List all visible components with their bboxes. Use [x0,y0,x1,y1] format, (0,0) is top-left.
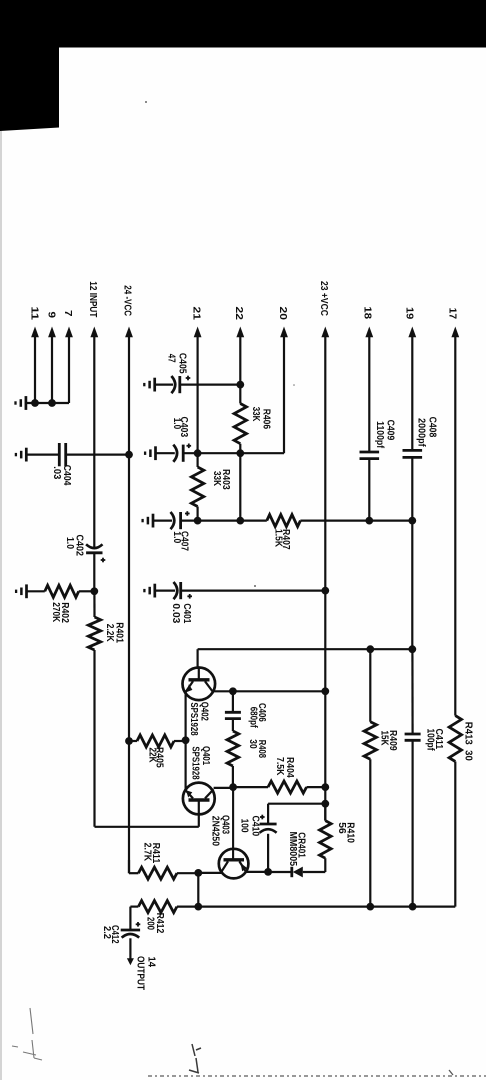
pin 7 terminal (arrow + lead) [62,310,74,403]
svg-text:7.5K: 7.5K [274,757,285,776]
junction C410/+VCC [321,800,329,808]
pin 11 terminal (arrow + lead) [28,307,40,404]
svg-text:15K: 15K [379,731,390,747]
junction R405/-VCC [125,737,133,745]
resistor R412 200 [130,901,198,934]
pin 22 terminal (arrow + lead) [233,307,245,385]
svg-text:11: 11 [28,307,40,321]
wire R407 to line19 [300,519,412,521]
transistor Q401 SPS1928 [183,746,215,827]
svg-text:33K: 33K [211,471,222,487]
svg-text:OUTPUT: OUTPUT [135,956,147,990]
wire line19 lower [411,457,413,521]
svg-text:Q402: Q402 [199,702,210,721]
junction R406/row [236,449,244,457]
diode CR401 MM8005 [268,832,325,878]
svg-text:1.0: 1.0 [171,418,182,430]
wire R413 to output bus [454,762,456,907]
junction output/Q403c [194,903,202,911]
wire Q401 base to R401 [95,650,199,827]
wire R409 to output bus [369,759,371,906]
wire output bus [198,905,455,907]
junction output/C411 [409,903,417,911]
scan page edge line [0,131,2,1080]
transistor Q403 2N4250 [210,787,249,878]
junction R403/C407 [194,517,202,525]
svg-text:2.7K: 2.7K [142,843,153,862]
svg-text:21: 21 [190,307,202,321]
resistor R407 1.5K [267,515,301,550]
resistor R404 7.5K [233,757,325,793]
junction C405/line22 [236,381,244,389]
junction R404/+VCC [321,783,329,791]
junction C410/Q403 emitter [264,868,272,876]
pin 20 terminal (arrow + lead) [277,307,289,454]
ground (C407) [143,514,172,528]
junction output/R409 [366,903,374,911]
svg-text:MM8005: MM8005 [287,832,298,867]
wire Q402 base feedback [198,649,413,668]
svg-text:47: 47 [166,354,177,363]
junction R407/line19 [408,517,416,525]
svg-text:2000pf: 2000pf [415,418,426,447]
resistor R409 15K [364,722,398,760]
resistor R405 22K [129,735,186,768]
svg-text:9: 9 [45,312,57,319]
capacitor C411 100pf [405,729,444,752]
resistor R413 30 [449,716,473,762]
wire Q402 collector [213,690,326,692]
svg-text:56: 56 [336,822,347,834]
junction line22/C407 [236,517,244,525]
capacitor C405 47 [166,353,191,393]
wire line18 lower [368,459,370,521]
svg-text:18: 18 [362,306,374,319]
wire Q402 emitter [185,692,187,791]
junction pin11/gnd [31,399,39,407]
resistor R402 270K [45,585,79,623]
capacitor C404 .03 [51,443,72,486]
svg-text:1.0: 1.0 [64,537,75,549]
pin 17 terminal (arrow + lead) [447,308,460,716]
svg-text:200: 200 [144,917,155,930]
svg-text:100: 100 [239,819,250,833]
capacitor C408 2000pf [403,417,438,458]
junction basewire/line18b [366,645,374,653]
svg-text:0.03: 0.03 [170,603,181,623]
svg-text:C409: C409 [385,420,396,441]
svg-text:24 -VCC: 24 -VCC [121,285,133,316]
junction basewire/line19 [408,645,416,653]
svg-text:23 +VCC: 23 +VCC [318,281,330,316]
svg-text:17: 17 [447,308,459,320]
ground (pins 11,9,7) [16,396,70,410]
junction Q401c/R408 [229,783,237,791]
junction C401/+VCC [321,587,329,595]
junction Q402c/C406 [229,687,237,695]
svg-text:2.2K: 2.2K [104,624,115,643]
svg-text:C410: C410 [250,816,261,837]
svg-text:SPS1928: SPS1928 [189,746,200,780]
capacitor C403 1.0 [171,417,191,462]
capacitor C406 680pf [225,691,267,728]
pin 23 +VCC terminal (arrow + lead) [318,281,330,821]
svg-text:22K: 22K [146,748,157,764]
svg-text:12 INPUT: 12 INPUT [87,281,99,318]
ground (R402) [16,584,45,598]
capacitor C409 1100pf [360,420,396,459]
wire C403 row to pin20 riser [183,452,284,454]
pin 9 terminal (arrow + lead) [45,312,57,404]
svg-text:R413 30: R413 30 [463,722,474,761]
wire C405 to line22 [180,384,241,386]
junction Q403c/R411 [194,869,202,877]
wire C410 top [268,804,325,824]
svg-text:C401: C401 [181,603,192,623]
wire Q403 emitter [246,871,268,873]
svg-text:.03: .03 [51,466,62,479]
svg-text:30: 30 [247,739,258,749]
junction Q402c/+VCC [321,687,329,695]
junction R407/line18 [365,517,373,525]
pin 24 -VCC terminal (arrow + lead) [121,285,133,873]
junction input node [90,587,98,595]
svg-text:20: 20 [277,307,289,321]
ground (C403) [145,446,175,460]
junction line21/C403/R403 [194,449,202,457]
resistor R406 33K [234,385,271,444]
ground (C404) [16,448,59,462]
wire C407 row [181,519,267,521]
wire Q401 collector [214,786,234,789]
resistor R411 2.7K [129,843,198,880]
black scan corner block [0,48,59,132]
svg-text:270K: 270K [50,602,61,623]
capacitor C402 1.0 [64,535,106,563]
junction pin9/gnd [48,399,56,407]
junction R405/emitters [182,736,190,744]
svg-text:100pf: 100pf [424,729,435,752]
svg-text:22: 22 [233,307,245,321]
junction C404/-VCC [125,451,133,459]
svg-text:C408: C408 [427,417,438,438]
black scan header bar [0,0,486,48]
capacitor C412 2.2 [101,907,140,959]
ground (C401) [144,584,175,598]
pin 18 terminal (arrow + lead) [362,306,374,452]
svg-text:R406: R406 [261,409,272,430]
svg-text:C405: C405 [177,353,188,374]
ground (C405) [144,378,173,392]
svg-text:7: 7 [62,310,74,317]
svg-text:1.0: 1.0 [171,531,182,543]
wire C404 to -VCC [66,454,129,456]
pin 21 terminal (arrow + lead) [190,307,202,454]
wire Q403c to output node [197,873,199,907]
capacitor C410 100 [239,815,277,872]
svg-text:2N4250: 2N4250 [210,816,221,847]
wire C402 to R402 node [93,553,95,592]
transistor Q402 SPS1928 [183,668,216,737]
svg-text:1.5K: 1.5K [273,529,284,548]
resistor R403 33K [191,453,230,506]
wire R402 to node [79,590,95,592]
svg-text:Q401: Q401 [200,746,211,765]
capacitor C407 1.0 [171,511,190,551]
wire Q403 collector [198,872,221,874]
pin 19 terminal (arrow + lead) [404,307,417,450]
svg-text:1100pf: 1100pf [374,421,385,449]
wire line18 lower branch [369,649,371,722]
wire C401 to +VCC [181,589,326,591]
resistor R408 30 [227,719,267,766]
pin 14 OUTPUT terminal [127,956,157,990]
wire line22 segment [239,444,241,521]
pin 12 INPUT terminal (arrow + lead) [87,281,99,547]
wire line19 to base wire [411,521,413,650]
svg-text:33K: 33K [250,407,261,422]
svg-text:19: 19 [404,307,416,319]
wire R408 to Q401 collector node [232,766,234,787]
svg-text:2.2: 2.2 [101,926,112,939]
wire R403 to C407 row [197,507,199,521]
wire C411 to output bus [412,740,414,906]
resistor R410 56 [320,804,356,872]
svg-text:SPS1928: SPS1928 [188,702,199,736]
wire line19 lower branch [411,649,413,734]
svg-text:680pf: 680pf [247,707,258,729]
capacitor C401 0.03 [170,582,192,624]
resistor R401 2.2K [88,591,124,650]
